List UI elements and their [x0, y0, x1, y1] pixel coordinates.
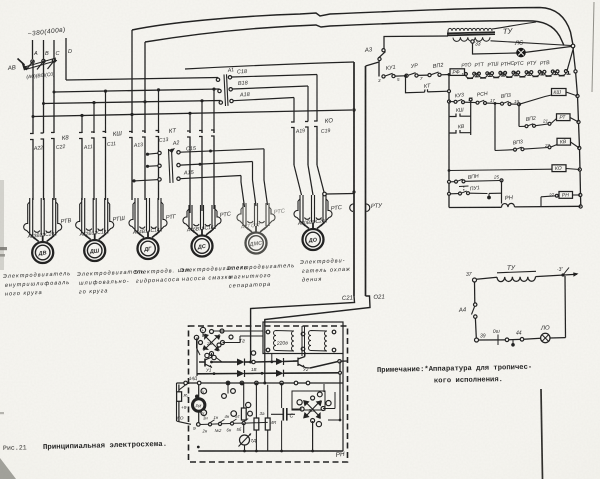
vertical long wire 1 down to A13 contact [131, 30, 133, 133]
wire C15 [180, 149, 264, 152]
ladder left rail [378, 62, 380, 77]
rung KUZ RSN VPZ [449, 101, 454, 103]
galvanometer [193, 399, 205, 411]
wire row1 with diodes [212, 361, 237, 363]
lamp LS [517, 48, 526, 57]
relay box KSh [552, 89, 567, 96]
rung KT [406, 76, 425, 93]
wire O21 to amp box [265, 296, 370, 326]
winding right [309, 331, 328, 352]
verticals to motor DMS [264, 149, 268, 205]
transformer TU primary [448, 28, 492, 31]
switch A4 [474, 282, 476, 303]
thermal contact РТТ [477, 72, 480, 75]
small terminals top left [200, 327, 205, 332]
transistor V1 [199, 359, 205, 367]
extra small circles amp [217, 343, 221, 347]
wire A15 [180, 176, 241, 179]
ladder top rail with contacts [382, 75, 385, 78]
rung VP2 21 RT [518, 104, 520, 126]
breaker arrow [22, 63, 29, 71]
wire 39 to lamp [479, 339, 506, 341]
breaker gang bar [25, 58, 57, 67]
wire lamp to right side up [550, 337, 566, 339]
ladder right rail [573, 48, 581, 207]
ladder mid rail vertical [448, 75, 450, 208]
contact UR [405, 74, 408, 77]
transformer sub box 220v [263, 322, 343, 354]
inner solid frame [177, 382, 344, 384]
rung VPZ 23 KV [494, 104, 496, 151]
circuit breaker AV input lines [32, 40, 34, 59]
diode bridge B1 [210, 330, 214, 334]
A2 black mark [168, 148, 175, 153]
breaker output verticals [32, 63, 34, 134]
terminal 39 [475, 338, 479, 342]
contactor K8 contacts [30, 132, 33, 135]
contact VP2 [428, 74, 431, 77]
junction dots amp rows [210, 361, 213, 364]
left protruding box outline [176, 383, 178, 392]
thermal contact end [556, 70, 559, 73]
terminal row on rail [184, 381, 188, 385]
tap bus C to third KT contact [157, 88, 160, 91]
sub branch KSh KV contacts [470, 100, 472, 136]
wire long top pair [132, 8, 573, 46]
wire VPZ to box KSh [519, 95, 552, 104]
wire O21 into box to rail [264, 326, 266, 383]
terminal 33 [471, 40, 474, 43]
wire row2 [180, 162, 252, 166]
amplifier unit dashed border [189, 326, 348, 462]
bus D [66, 78, 218, 81]
motor ДМС [246, 233, 267, 254]
thermal contact РТУ [530, 71, 533, 74]
chain to resistor columns wire [245, 422, 256, 424]
RTU bumps [350, 204, 354, 212]
wires top-left bridge area [202, 333, 204, 337]
bottom-left page corner shadow [0, 458, 16, 479]
thermal contact РТНС [504, 71, 507, 74]
potentiometer [240, 435, 250, 445]
relay box RN [559, 192, 573, 199]
resistor columns [255, 385, 257, 418]
node 9 [197, 423, 201, 427]
left edge smudges [0, 247, 7, 250]
motor ДГ [138, 238, 159, 259]
left measuring loop R1 [178, 385, 180, 422]
thermal overload РТС for motor ДМС [242, 203, 244, 226]
bus C [54, 89, 220, 92]
relay box KO [552, 165, 566, 172]
rail segment to right corner [567, 48, 574, 71]
winding 220v left [274, 331, 295, 352]
diode bridge B2 [292, 391, 325, 410]
transformer TU secondary [453, 37, 490, 41]
connector A2 [146, 153, 149, 156]
thermal contact РТО [464, 73, 467, 76]
wire to RTU left [185, 62, 354, 69]
relay box RF [450, 69, 465, 76]
transformer primary right wire [492, 22, 536, 29]
RTU heater wires [353, 62, 355, 296]
wire B18 [232, 86, 308, 89]
contactor KSh contacts [79, 132, 82, 135]
wire C18 [232, 75, 317, 78]
core mark [301, 326, 303, 356]
thermal overload РТШ for motor ДШ [81, 198, 83, 234]
wire C21 to amp box [251, 296, 355, 326]
wire lamp to right rail corner [525, 47, 571, 53]
rung PU1 button [448, 192, 451, 195]
wire to 3 prime arrow [536, 274, 578, 276]
circles mid [231, 411, 237, 417]
junction DO trident to RTU [323, 192, 327, 196]
transformer TU core [447, 32, 495, 33]
switch A3 [383, 37, 385, 49]
inductor TU tropical [477, 277, 498, 279]
relay box KV [557, 138, 571, 145]
inner vertical near box right [323, 384, 325, 392]
thermal overload РТВ for motor ДВ [29, 198, 31, 236]
black terminal [195, 395, 199, 399]
lamp LO [541, 333, 550, 342]
thermal contact РТВ [543, 70, 546, 73]
column row y383 to cap [281, 385, 283, 408]
contact KU1 [392, 75, 395, 78]
bus B [44, 101, 221, 104]
wires bridge to box [214, 330, 264, 332]
motor ДО [303, 229, 324, 250]
motor ДС [192, 236, 213, 257]
contactor KO contacts [291, 121, 294, 124]
breaker AV blades [31, 60, 34, 63]
switch chain row [200, 423, 208, 425]
tap dots bus to KSh group [80, 114, 83, 117]
connector A1 [216, 78, 219, 81]
wire bridge2 bottom to rail [328, 419, 340, 421]
vertical long wire 2 down to C13 contact [144, 42, 146, 133]
verticals down to KO contacts [316, 75, 318, 122]
wire C21 into box down to row1 [250, 326, 252, 362]
line D input [65, 38, 67, 80]
bus A [33, 110, 352, 117]
thermal overload РТГ for motor ДГ [134, 198, 136, 232]
rung KO box [449, 169, 552, 170]
resistor column with potentiometer [243, 423, 245, 433]
contactor KT contacts [129, 132, 132, 134]
thermal overload РТС for motor ДО [299, 195, 301, 223]
capacitor C [282, 408, 284, 421]
page right edge line [592, 2, 594, 92]
ladder bottom rail [449, 206, 502, 208]
transistor V2 [298, 357, 305, 368]
thermal contact РТШ [491, 72, 494, 75]
wire A3 to transformer [384, 36, 448, 37]
page edge bottom right vertical [541, 389, 543, 479]
taps for motor DS branch [188, 112, 191, 115]
rung VPN 25 [448, 180, 451, 183]
wire secondary to right rail [491, 41, 572, 46]
thermal overload РТС for motor ДС [188, 205, 190, 229]
motor ДВ [32, 242, 53, 263]
contactor contacts motor DS [187, 131, 190, 133]
thermal contact РТС [517, 71, 520, 74]
wire 33 to lamp [473, 43, 517, 54]
bridge2 wires [312, 421, 314, 451]
motor ДШ [84, 240, 105, 261]
wire A18 [233, 98, 294, 101]
wire row2 with diodes [197, 373, 237, 375]
relay box RT [557, 114, 571, 121]
